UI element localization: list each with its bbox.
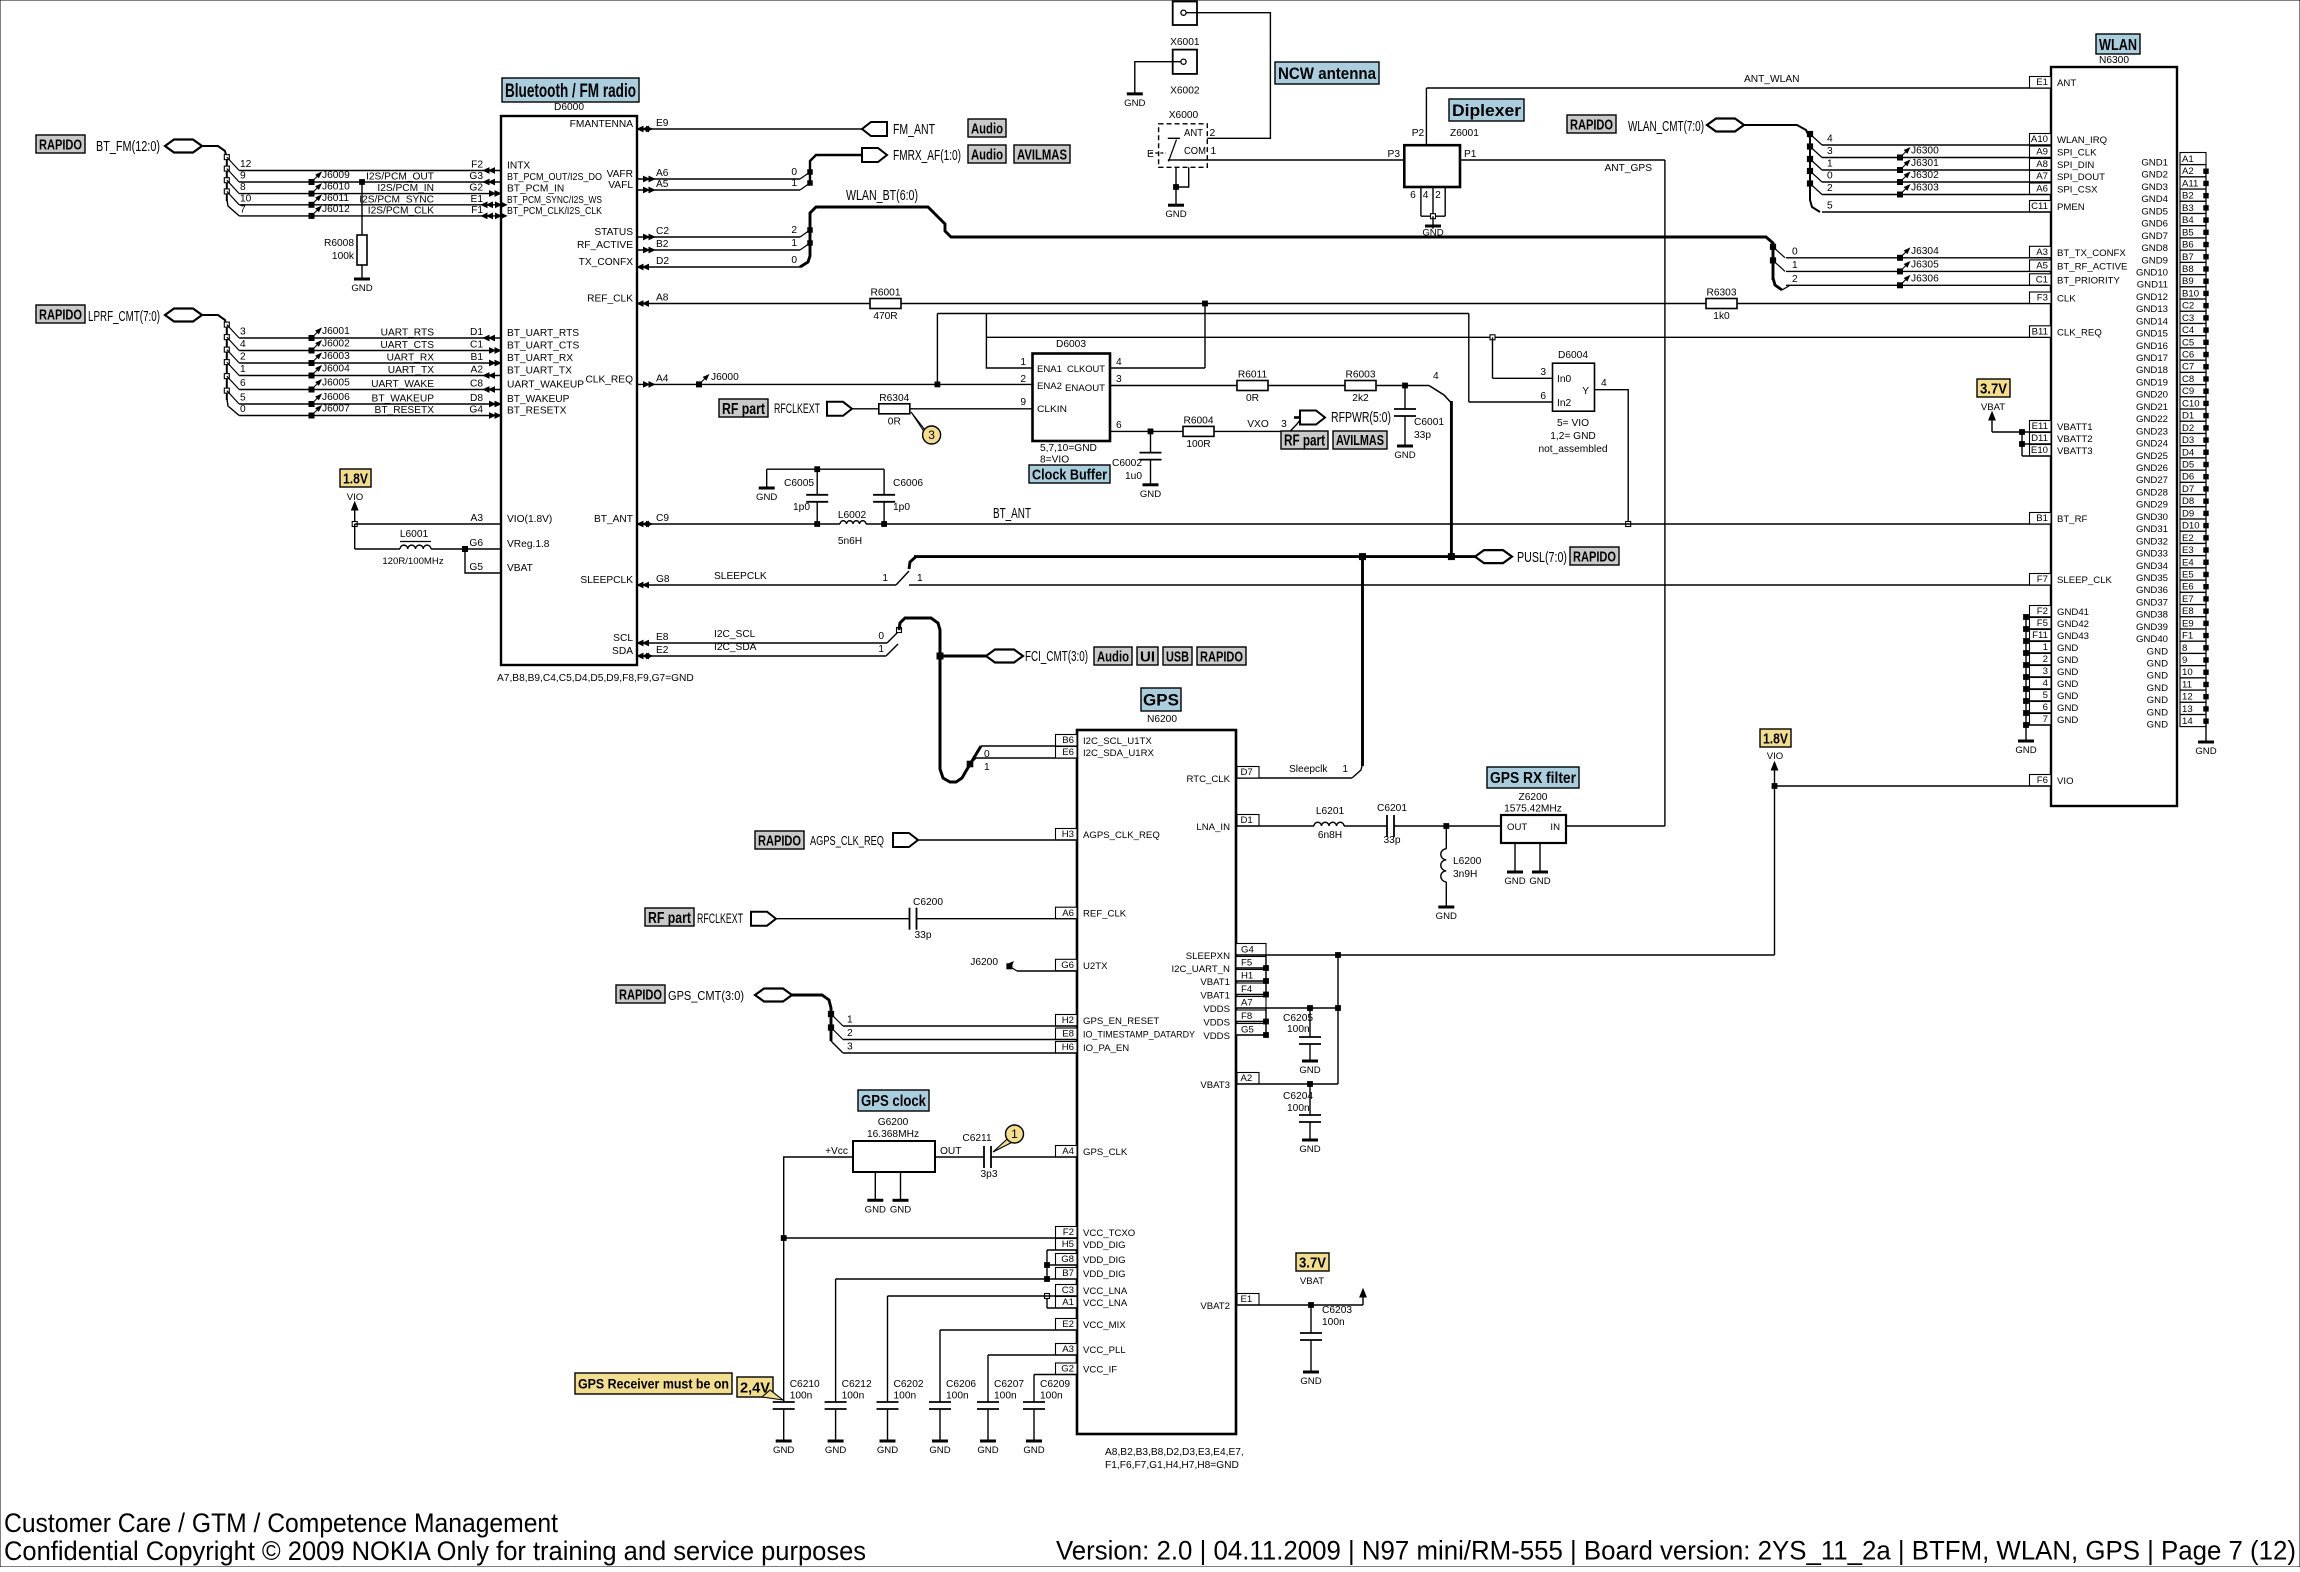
svg-text:0: 0 — [791, 167, 797, 178]
jumper J6301 — [1898, 168, 1903, 173]
svg-text:J6007: J6007 — [322, 404, 350, 415]
svg-text:J6011: J6011 — [322, 193, 349, 204]
svg-text:8: 8 — [2182, 643, 2187, 654]
wire LNA_IN — [1236, 825, 1314, 827]
svg-text:A7,B8,B9,C4,C5,D4,D5,D9,F8,F9,: A7,B8,B9,C4,C5,D4,D5,D9,F8,F9,G7=GND — [497, 673, 694, 684]
svg-text:8: 8 — [240, 182, 246, 193]
svg-text:GND37: GND37 — [2136, 597, 2168, 608]
svg-text:VIO: VIO — [347, 492, 364, 503]
svg-text:GND: GND — [2147, 646, 2168, 657]
svg-text:E8: E8 — [656, 632, 669, 643]
svg-text:J6009: J6009 — [322, 170, 350, 181]
capacitor C6201 — [1386, 815, 1388, 837]
svg-text:C9: C9 — [656, 513, 669, 524]
ripper VAFR — [808, 170, 813, 175]
svg-text:GND: GND — [1529, 876, 1550, 887]
svg-text:D3: D3 — [2182, 435, 2194, 446]
svg-text:BT_RESETX: BT_RESETX — [375, 405, 435, 416]
svg-text:F2: F2 — [471, 160, 483, 171]
svg-text:E10: E10 — [2031, 445, 2048, 456]
svg-text:UART_TX: UART_TX — [388, 365, 434, 376]
svg-text:3: 3 — [928, 428, 935, 442]
wire VBAT3 — [1236, 1083, 1338, 1085]
svg-text:5: 5 — [240, 393, 246, 404]
svg-text:A6: A6 — [656, 168, 669, 179]
svg-text:E3: E3 — [2182, 545, 2194, 556]
svg-text:A3: A3 — [471, 513, 484, 524]
ground C6001 — [1397, 445, 1413, 448]
svg-text:1: 1 — [1827, 159, 1833, 170]
wire E6 row — [976, 757, 1077, 759]
svg-text:J6005: J6005 — [322, 378, 350, 389]
svg-text:B2: B2 — [2182, 191, 2194, 202]
svg-text:VDD_DIG: VDD_DIG — [1083, 1269, 1126, 1280]
svg-text:VIO: VIO — [2057, 776, 2074, 787]
svg-text:USB: USB — [1166, 648, 1189, 665]
ground R6008 — [354, 278, 370, 281]
svg-text:1: 1 — [1011, 1127, 1018, 1141]
X6000 internal — [1168, 137, 1180, 139]
svg-text:P1: P1 — [1464, 149, 1477, 160]
svg-text:A8,B2,B3,B8,D2,D3,E3,E4,E7,: A8,B2,B3,B8,D2,D3,E3,E4,E7, — [1105, 1447, 1244, 1458]
svg-text:AVILMAS: AVILMAS — [1017, 146, 1067, 163]
wire VCC_PLL — [988, 1354, 1077, 1356]
junction VIO — [1772, 784, 1777, 789]
svg-text:D7: D7 — [2182, 484, 2194, 495]
svg-text:G8: G8 — [1061, 1254, 1074, 1265]
svg-text:BT_PCM_CLK/I2S_CLK: BT_PCM_CLK/I2S_CLK — [507, 206, 602, 217]
svg-text:GND43: GND43 — [2057, 631, 2089, 642]
svg-text:C10: C10 — [2182, 398, 2200, 409]
svg-text:R6008: R6008 — [324, 238, 354, 249]
svg-text:B4: B4 — [2182, 215, 2194, 226]
svg-text:7: 7 — [240, 204, 246, 215]
svg-text:F1: F1 — [471, 205, 483, 216]
ripper Sleepclk gps — [1352, 764, 1363, 778]
arrow VIO up 2 — [1774, 766, 1776, 786]
svg-text:VCC_LNA: VCC_LNA — [1083, 1286, 1128, 1297]
junction E6 ripper — [967, 761, 973, 767]
svg-text:IO_PA_EN: IO_PA_EN — [1083, 1043, 1129, 1054]
svg-text:GND: GND — [1422, 228, 1443, 239]
svg-text:G4: G4 — [469, 405, 483, 416]
bus LPRF_CMT vertical — [226, 325, 228, 400]
bracket VDDS — [1265, 1008, 1267, 1035]
svg-text:GND30: GND30 — [2136, 512, 2168, 523]
svg-text:CLKIN: CLKIN — [1037, 404, 1067, 415]
svg-text:B6: B6 — [2182, 240, 2194, 251]
wire STATUS — [637, 236, 800, 238]
svg-text:E1: E1 — [2036, 77, 2048, 88]
svg-text:E6: E6 — [2182, 582, 2194, 593]
svg-text:Version: 2.0 | 04.11.2009 |: Version: 2.0 | 04.11.2009 | N97 mini/RM-… — [1056, 1536, 2296, 1566]
bus ripper bit 8 — [224, 178, 229, 183]
svg-text:6: 6 — [2043, 702, 2048, 713]
svg-text:I2S/PCM_IN: I2S/PCM_IN — [377, 183, 434, 194]
svg-text:RF part: RF part — [648, 910, 692, 927]
ripper SCL — [887, 631, 899, 643]
svg-text:B3: B3 — [2182, 203, 2194, 214]
svg-text:3p3: 3p3 — [981, 1169, 998, 1180]
svg-text:H1: H1 — [1241, 971, 1253, 982]
svg-text:2k2: 2k2 — [1352, 393, 1369, 404]
svg-text:F5: F5 — [2037, 618, 2048, 629]
jumper J6006 — [309, 402, 314, 407]
svg-text:BT_PCM_SYNC/I2S_WS: BT_PCM_SYNC/I2S_WS — [507, 195, 602, 206]
wire gnd stub — [766, 469, 768, 488]
ripper GPS_CMT 2 — [828, 1025, 833, 1030]
wire ANT_GPS riser — [1664, 160, 1666, 826]
node Y to BT_RF — [1626, 522, 1631, 527]
wire VCC_IF — [1034, 1374, 1077, 1376]
svg-text:GND: GND — [825, 1445, 846, 1456]
wire CLKREQ_B11 — [986, 336, 2051, 338]
svg-text:12: 12 — [2182, 692, 2193, 703]
svg-text:C6202: C6202 — [894, 1379, 924, 1390]
svg-text:GND10: GND10 — [2136, 267, 2168, 278]
svg-text:0: 0 — [1827, 171, 1833, 182]
svg-text:RF part: RF part — [722, 401, 766, 418]
svg-text:D6004: D6004 — [1558, 350, 1588, 361]
ground C6204 — [1302, 1139, 1318, 1142]
svg-text:100n: 100n — [1322, 1317, 1345, 1328]
svg-text:E2: E2 — [1062, 1319, 1074, 1330]
svg-text:2: 2 — [1435, 190, 1441, 201]
svg-text:4: 4 — [2043, 678, 2049, 689]
svg-text:VReg.1.8: VReg.1.8 — [507, 539, 550, 550]
wire VCC_MIX — [940, 1329, 1077, 1331]
svg-text:UI: UI — [1140, 648, 1155, 665]
svg-text:1: 1 — [878, 644, 884, 655]
callout 3 — [911, 412, 934, 441]
junction C6203 — [1309, 1303, 1314, 1308]
tag RF part (RFPWR) — [1281, 431, 1328, 449]
svg-text:GND9: GND9 — [2141, 255, 2168, 266]
svg-text:GND: GND — [2147, 695, 2168, 706]
svg-text:C6211: C6211 — [962, 1133, 992, 1144]
svg-text:E8: E8 — [2182, 606, 2194, 617]
svg-text:RAPIDO: RAPIDO — [39, 136, 82, 153]
svg-text:BT_TX_CONFX: BT_TX_CONFX — [2057, 248, 2126, 259]
svg-text:E4: E4 — [2182, 557, 2194, 568]
svg-text:LNA_IN: LNA_IN — [1196, 822, 1230, 833]
svg-text:GND42: GND42 — [2057, 619, 2089, 630]
ripper GPS_CMT 1 — [828, 1011, 833, 1016]
svg-text:GND12: GND12 — [2136, 292, 2168, 303]
svg-text:9: 9 — [1020, 397, 1026, 408]
svg-text:1: 1 — [1020, 357, 1026, 368]
svg-text:X6001: X6001 — [1170, 37, 1200, 48]
svg-text:RAPIDO: RAPIDO — [39, 306, 82, 323]
jumper J6003 — [309, 361, 314, 366]
svg-text:A7: A7 — [1241, 998, 1253, 1009]
svg-text:GND14: GND14 — [2136, 316, 2169, 327]
svg-text:VBAT1: VBAT1 — [1200, 977, 1230, 988]
wire L6201-C6201 — [1344, 825, 1387, 827]
svg-text:2: 2 — [2043, 654, 2048, 665]
ground C6202 — [880, 1440, 896, 1443]
tag RAPIDO (BT_FM) — [36, 135, 85, 153]
junction C6204 — [1308, 1082, 1313, 1087]
svg-text:BT_RF: BT_RF — [2057, 514, 2088, 525]
svg-text:RFCLKEXT: RFCLKEXT — [697, 911, 743, 926]
wire VAFL — [637, 189, 800, 191]
svg-text:GND: GND — [1299, 1144, 1320, 1155]
supply 1.8V VIO — [340, 469, 371, 487]
junction ENA1 tap — [935, 382, 940, 387]
svg-text:C6210: C6210 — [790, 1379, 820, 1390]
svg-text:3: 3 — [240, 327, 246, 338]
wire C6202 riser — [887, 1296, 889, 1402]
svg-text:F1,F6,F7,G1,H4,H7,H8=GND: F1,F6,F7,G1,H4,H7,H8=GND — [1105, 1460, 1239, 1471]
wire TX_CONFX — [637, 266, 800, 268]
svg-text:H5: H5 — [1062, 1239, 1074, 1250]
bus PUSL — [914, 555, 1475, 558]
wire C6209 riser — [1033, 1375, 1035, 1403]
svg-text:A11: A11 — [2182, 178, 2198, 189]
svg-text:LPRF_CMT(7:0): LPRF_CMT(7:0) — [88, 309, 160, 325]
svg-text:J6000: J6000 — [711, 372, 739, 383]
svg-text:A2: A2 — [471, 365, 484, 376]
svg-text:10: 10 — [240, 193, 252, 204]
ground C6206 — [932, 1440, 948, 1443]
wire VAFR — [637, 178, 800, 180]
svg-text:D6: D6 — [2182, 472, 2194, 483]
bus PUSL riser — [1450, 401, 1453, 557]
wire C6210 riser — [783, 1238, 785, 1402]
connector X6001 — [1173, 2, 1197, 26]
bus I2C — [899, 618, 981, 782]
svg-text:F2: F2 — [1063, 1227, 1074, 1238]
ground G6200 b — [893, 1199, 909, 1202]
svg-text:9: 9 — [240, 171, 246, 182]
ripper VXO — [1290, 420, 1300, 431]
svg-text:6: 6 — [1116, 420, 1122, 431]
svg-text:PMEN: PMEN — [2057, 202, 2085, 213]
ground Z6200 b — [1532, 871, 1548, 874]
svg-text:1: 1 — [1211, 146, 1217, 157]
svg-text:33p: 33p — [915, 930, 932, 941]
label GPS — [1141, 688, 1181, 711]
wire VIO riser — [1774, 786, 1776, 955]
wire VBATT bracket — [2021, 432, 2023, 456]
svg-text:A2: A2 — [2182, 166, 2194, 177]
ground filter — [759, 487, 775, 490]
svg-text:A3: A3 — [1062, 1344, 1074, 1355]
svg-text:RTC_CLK: RTC_CLK — [1186, 774, 1230, 785]
tag RAPIDO (LPRF_CMT) — [36, 305, 85, 323]
svg-text:A1: A1 — [1062, 1297, 1074, 1308]
svg-text:C6201: C6201 — [1377, 803, 1407, 814]
svg-text:BT_PCM_OUT/I2S_DO: BT_PCM_OUT/I2S_DO — [507, 172, 602, 183]
svg-text:1: 1 — [240, 364, 246, 375]
wire WLAN gnd ladder — [2205, 170, 2207, 724]
wire REF_CLK left — [637, 303, 870, 305]
svg-text:C6205: C6205 — [1283, 1013, 1313, 1024]
svg-text:1.8V: 1.8V — [343, 470, 368, 487]
ripper WLAN_CMT 4 — [1807, 131, 1812, 136]
svg-text:SPI_DIN: SPI_DIN — [2057, 160, 2094, 171]
svg-text:GND1: GND1 — [2141, 158, 2168, 169]
svg-text:VDD_DIG: VDD_DIG — [1083, 1255, 1126, 1266]
svg-text:I2C_SDA: I2C_SDA — [714, 642, 757, 653]
bus FCI stub — [940, 655, 986, 658]
svg-text:100n: 100n — [1040, 1391, 1063, 1402]
wire R6008 to gnd — [361, 265, 363, 279]
svg-text:GPS_CMT(3:0): GPS_CMT(3:0) — [668, 988, 744, 1003]
resistor R6003 — [1345, 381, 1376, 391]
svg-text:A7: A7 — [2036, 171, 2048, 182]
wire ANT_WLAN — [1426, 87, 2051, 89]
svg-text:Audio: Audio — [1097, 648, 1129, 665]
jumper J6001 — [309, 336, 314, 341]
svg-text:SPI_CLK: SPI_CLK — [2057, 148, 2097, 159]
svg-text:GPS: GPS — [1143, 691, 1179, 710]
svg-text:BT_PCM_IN: BT_PCM_IN — [507, 184, 564, 195]
svg-text:REF_CLK: REF_CLK — [1083, 909, 1127, 920]
svg-text:VDDS: VDDS — [1203, 1031, 1230, 1042]
wire SLEEPCLK right — [909, 584, 2051, 586]
wire X6000 gnd — [1175, 167, 1177, 187]
bus GPS_CMT — [792, 995, 831, 1041]
wire to L6001 — [355, 548, 400, 550]
bus cable LPRF_CMT — [165, 309, 202, 322]
ripper WLAN_BT 0 — [1770, 244, 1775, 249]
tag RF part (GPS) — [645, 908, 694, 926]
svg-text:GND: GND — [1436, 911, 1457, 922]
svg-text:L6001: L6001 — [400, 529, 429, 540]
svg-text:J6200: J6200 — [970, 957, 998, 968]
svg-text:VBATT3: VBATT3 — [2057, 446, 2093, 457]
svg-text:GND2: GND2 — [2141, 170, 2168, 181]
svg-text:GND6: GND6 — [2141, 219, 2168, 230]
jumper J6303 — [1898, 192, 1903, 197]
svg-text:GND26: GND26 — [2136, 463, 2168, 474]
svg-text:Bluetooth / FM radio: Bluetooth / FM radio — [505, 81, 636, 102]
svg-text:I2C_SDA_U1RX: I2C_SDA_U1RX — [1083, 748, 1155, 759]
svg-text:2: 2 — [847, 1028, 853, 1039]
svg-text:VBAT: VBAT — [507, 563, 533, 574]
svg-text:VDD_DIG: VDD_DIG — [1083, 1240, 1126, 1251]
svg-text:GND23: GND23 — [2136, 426, 2168, 437]
svg-text:E1: E1 — [1241, 1294, 1253, 1305]
svg-text:ANT: ANT — [1184, 128, 1203, 139]
wire ENA1 riser — [936, 314, 938, 385]
svg-text:RAPIDO: RAPIDO — [1573, 548, 1616, 565]
svg-text:100n: 100n — [994, 1391, 1017, 1402]
svg-text:C6006: C6006 — [893, 478, 923, 489]
svg-text:Z6200: Z6200 — [1519, 792, 1548, 803]
svg-text:F3: F3 — [2037, 293, 2048, 304]
svg-text:BT_ANT: BT_ANT — [993, 506, 1031, 522]
svg-text:GND33: GND33 — [2136, 549, 2168, 560]
bus cable BT_FM — [165, 140, 202, 153]
bus Sleepclk riser — [1361, 557, 1364, 766]
svg-text:RFCLKEXT: RFCLKEXT — [774, 401, 820, 416]
jumper J6300 — [1898, 155, 1903, 160]
svg-text:GND28: GND28 — [2136, 487, 2168, 498]
svg-text:6: 6 — [1540, 391, 1546, 402]
svg-text:3: 3 — [1827, 146, 1833, 157]
svg-text:GND34: GND34 — [2136, 561, 2169, 572]
wire to R6304 — [852, 408, 879, 410]
tag Audio (FCI) — [1094, 647, 1132, 665]
svg-text:D6000: D6000 — [554, 102, 584, 113]
svg-text:D10: D10 — [2182, 521, 2200, 532]
svg-text:CLK: CLK — [2057, 294, 2076, 305]
svg-text:4: 4 — [240, 339, 246, 350]
ground X6002 — [1127, 92, 1143, 95]
svg-text:I2C_SCL_U1TX: I2C_SCL_U1TX — [1083, 736, 1152, 747]
svg-text:33p: 33p — [1414, 430, 1431, 441]
svg-text:B1: B1 — [471, 352, 484, 363]
svg-text:GND: GND — [977, 1445, 998, 1456]
tag Audio (FMRX) — [968, 145, 1006, 163]
svg-text:GND: GND — [2147, 659, 2168, 670]
svg-text:GND8: GND8 — [2141, 243, 2168, 254]
resistor R6004 — [1183, 426, 1214, 436]
wire U2TX — [1017, 970, 1077, 972]
wire In0 drop — [1492, 337, 1494, 378]
wire BT_ANT right — [866, 523, 2051, 525]
svg-text:D9: D9 — [2182, 508, 2194, 519]
supply 1.8V VIO (WLAN) — [1760, 729, 1791, 747]
svg-text:C2: C2 — [656, 226, 669, 237]
tag RF part (RFCLKEXT) — [719, 399, 768, 417]
wire R6003 out — [1376, 385, 1429, 387]
svg-text:R6004: R6004 — [1183, 415, 1213, 426]
wire filter top rail — [767, 468, 884, 470]
svg-text:COM: COM — [1184, 146, 1206, 157]
svg-text:VBAT: VBAT — [1300, 1276, 1324, 1287]
svg-text:FMANTENNA: FMANTENNA — [570, 119, 634, 130]
svg-text:SCL: SCL — [613, 633, 633, 644]
svg-text:G4: G4 — [1241, 945, 1254, 956]
svg-text:C6207: C6207 — [994, 1379, 1024, 1390]
svg-text:0: 0 — [240, 404, 246, 415]
bus cable WLAN_CMT — [1707, 119, 1744, 132]
svg-text:GND: GND — [1023, 1445, 1044, 1456]
svg-text:RAPIDO: RAPIDO — [1570, 116, 1613, 133]
svg-text:SPI_CSX: SPI_CSX — [2057, 185, 2098, 196]
svg-text:U2TX: U2TX — [1083, 961, 1108, 972]
svg-text:GND40: GND40 — [2136, 634, 2168, 645]
svg-text:E9: E9 — [2182, 618, 2194, 629]
bus ripper bit 12 — [224, 155, 229, 160]
svg-text:VCC_IF: VCC_IF — [1083, 1365, 1117, 1376]
svg-text:GND20: GND20 — [2136, 390, 2168, 401]
svg-text:WLAN: WLAN — [2099, 37, 2137, 54]
svg-text:G5: G5 — [469, 562, 483, 573]
svg-text:BT_UART_RTS: BT_UART_RTS — [507, 328, 579, 339]
ground Z6200 a — [1507, 871, 1523, 874]
wire C6200 out — [917, 918, 1078, 920]
svg-text:4: 4 — [1423, 190, 1429, 201]
svg-text:INTX: INTX — [507, 161, 530, 172]
ripper VAFL — [808, 181, 813, 186]
bus WLAN_BT — [800, 207, 1773, 280]
label Bluetooth / FM radio — [502, 78, 639, 102]
svg-text:4: 4 — [1601, 378, 1607, 389]
svg-text:J6303: J6303 — [1911, 183, 1939, 194]
svg-text:100n: 100n — [946, 1391, 969, 1402]
wire COM to P3 — [1180, 159, 1404, 161]
svg-text:GND: GND — [890, 1204, 911, 1215]
wire GPS_CLK — [991, 1156, 1077, 1158]
svg-text:X6002: X6002 — [1170, 86, 1200, 97]
svg-text:1: 1 — [847, 1015, 853, 1026]
svg-text:BT_RESETX: BT_RESETX — [507, 406, 567, 417]
